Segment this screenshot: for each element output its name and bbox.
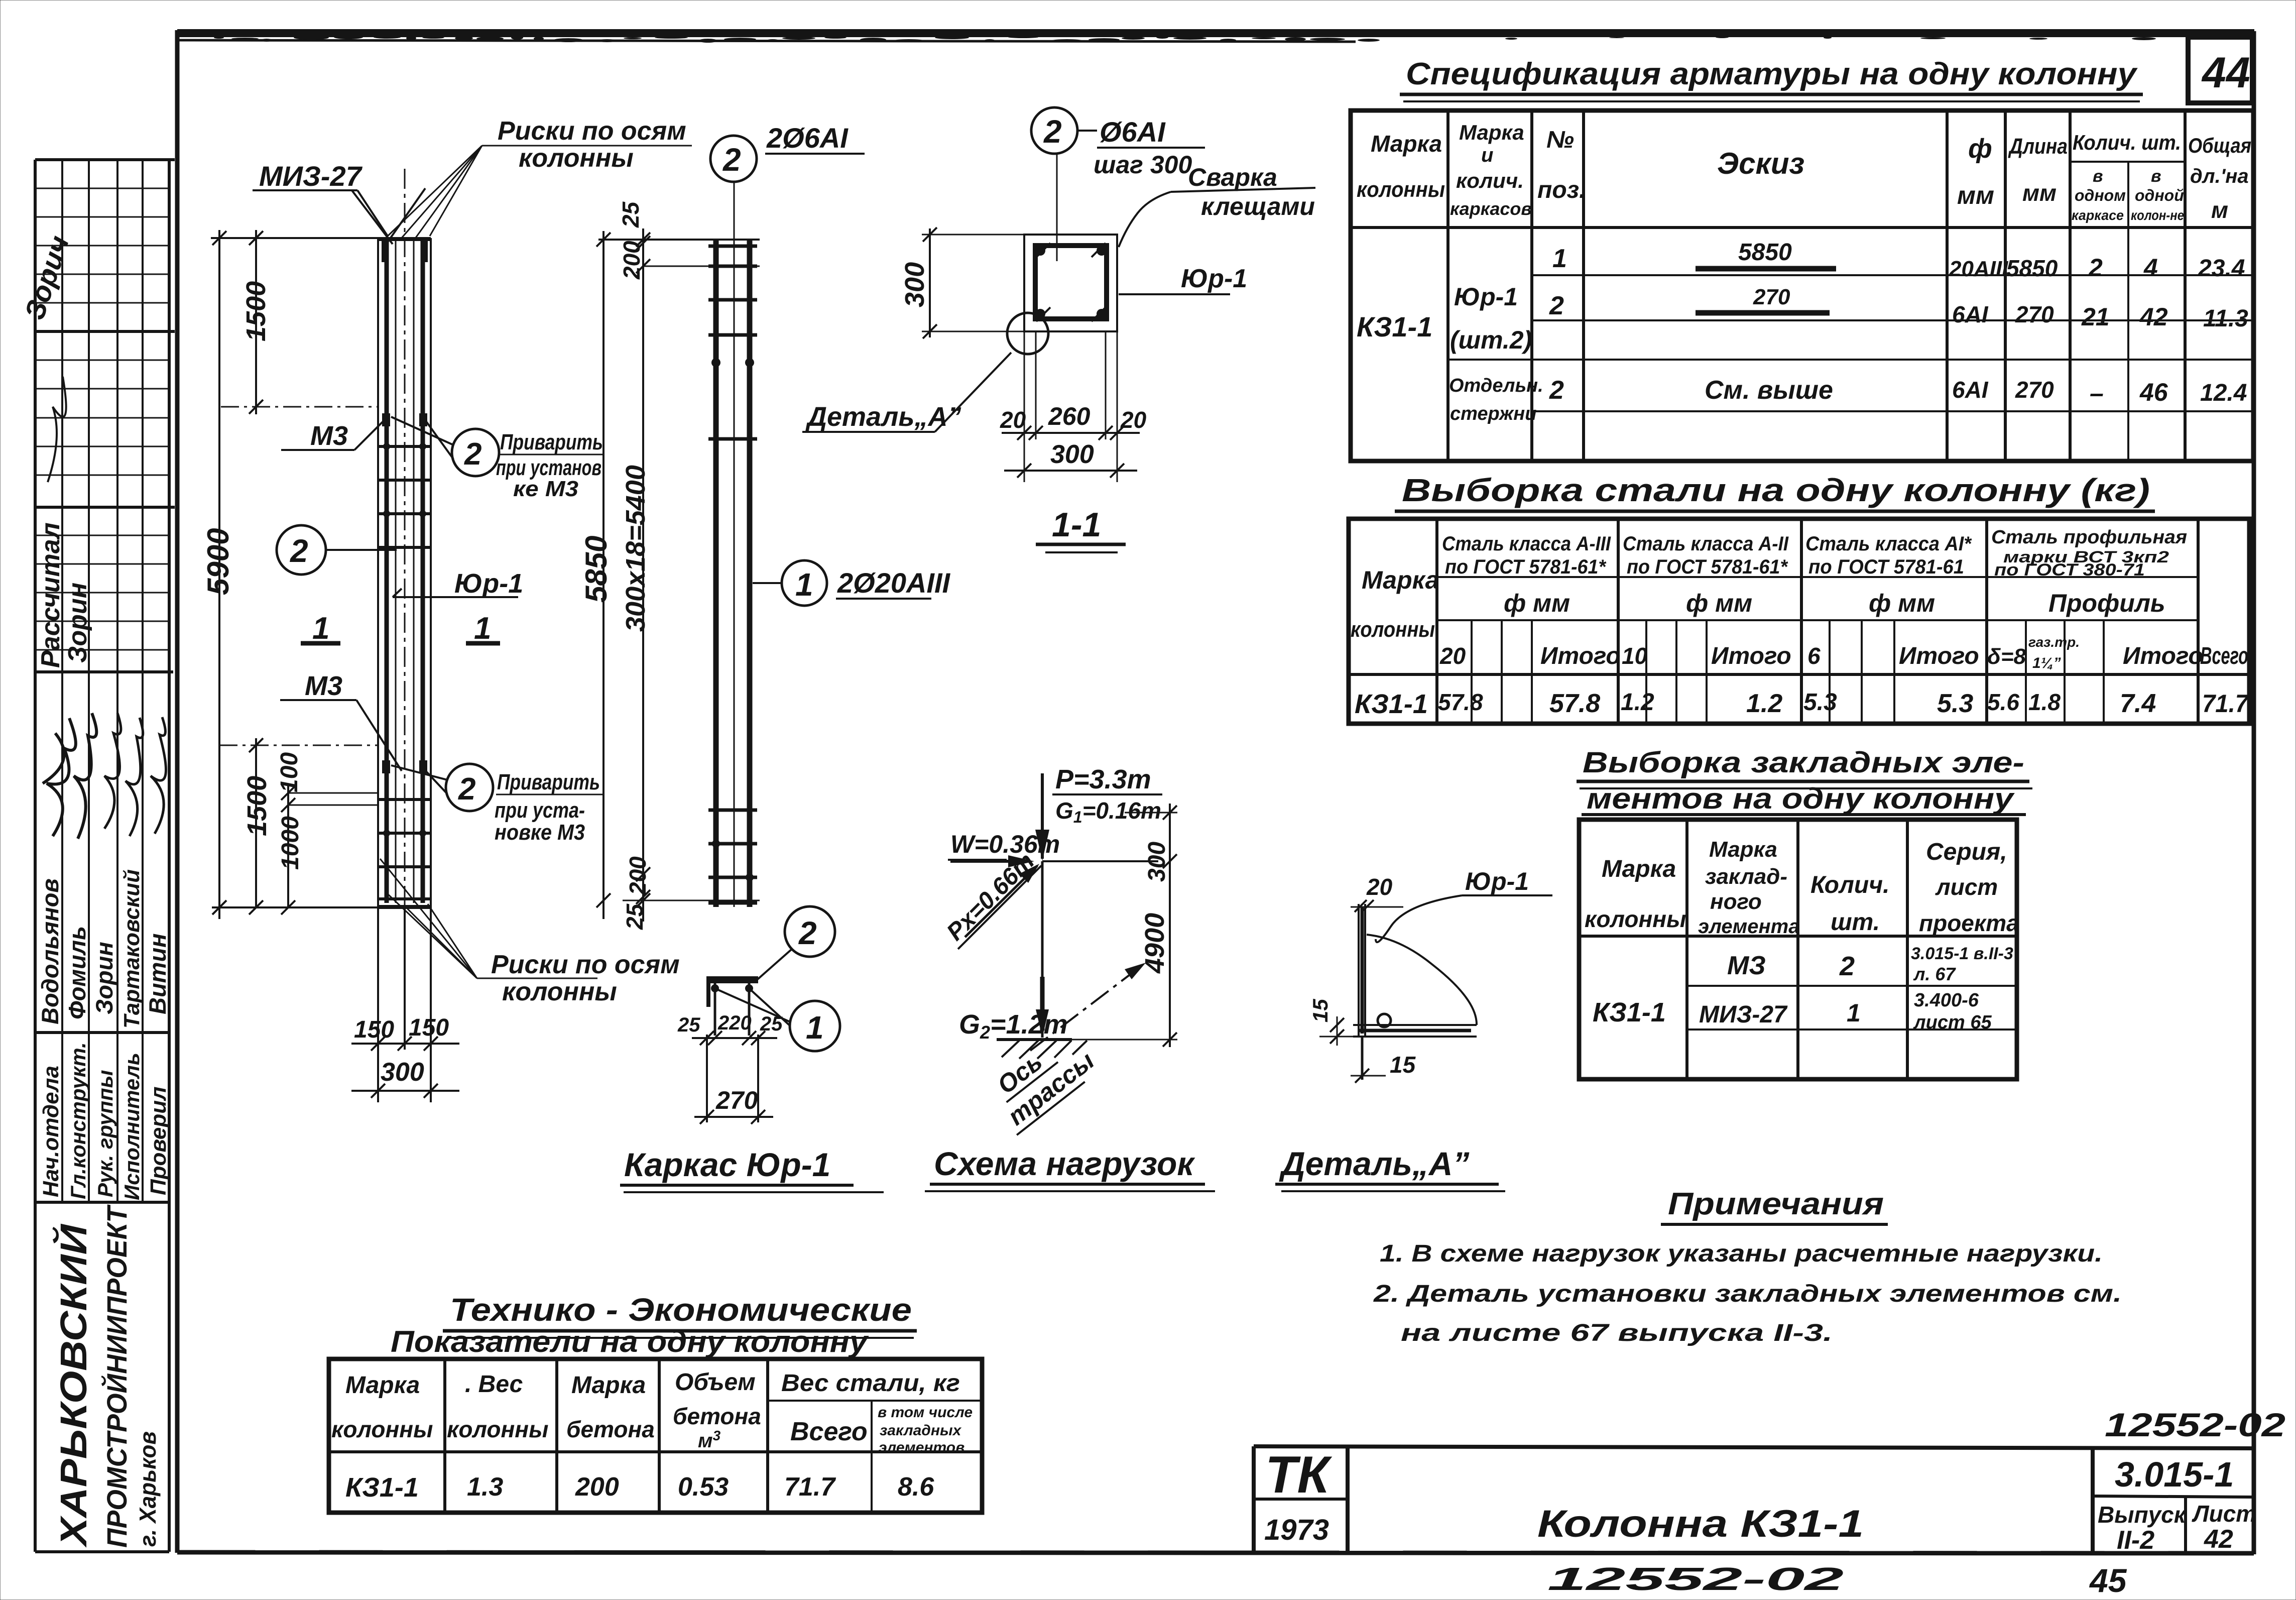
svg-text:3.015-1 в.ІІ-3: 3.015-1 в.ІІ-3	[1911, 944, 2013, 963]
svg-text:закладных: закладных	[880, 1422, 962, 1439]
scan noise along top border	[183, 35, 2156, 43]
dimension 5850 (cage total)	[579, 231, 613, 919]
svg-text:Приварить: Приварить	[500, 430, 603, 454]
stirrups upper cluster	[378, 445, 431, 448]
svg-text:Ø6АІ: Ø6АІ	[1100, 116, 1166, 148]
svg-text:элемента: элемента	[1698, 916, 1799, 938]
svg-text:2: 2	[1043, 113, 1062, 150]
svg-text:2: 2	[722, 142, 741, 178]
svg-text:Зорин: Зорин	[63, 583, 92, 663]
svg-text:1: 1	[806, 1009, 824, 1046]
svg-text:Выпуск: Выпуск	[2098, 1502, 2187, 1528]
column axis	[1041, 861, 1044, 1038]
column K31-1 elevation view	[351, 169, 431, 907]
svg-text:12.4: 12.4	[2200, 380, 2247, 406]
svg-text:G2=1.2т: G2=1.2т	[959, 1009, 1068, 1043]
steel table header texts	[1351, 527, 2248, 671]
callout 1 (stirrup detail)	[717, 989, 840, 1051]
svg-text:ПРОМСТРОЙНИИПРОЕКТ: ПРОМСТРОЙНИИПРОЕКТ	[101, 1204, 133, 1548]
svg-text:5.6: 5.6	[1987, 689, 2019, 715]
svg-text:12552-02: 12552-02	[1547, 1561, 1844, 1597]
svg-text:КЗ1-1: КЗ1-1	[1355, 689, 1428, 719]
svg-text:2: 2	[798, 915, 817, 951]
embed table texts	[1585, 837, 2019, 1033]
axis cross lines at top	[351, 190, 393, 244]
weld dot	[1378, 1014, 1391, 1027]
svg-text:11.3: 11.3	[2203, 305, 2248, 332]
svg-text:2Ø6АІ: 2Ø6АІ	[766, 122, 849, 154]
svg-text:Примечания: Примечания	[1668, 1187, 1884, 1221]
axis of route dash-dot	[1030, 965, 1142, 1051]
corner bars	[1035, 246, 1045, 256]
column axis dash-dot	[404, 169, 406, 907]
svg-text:по ГОСТ 380-71: по ГОСТ 380-71	[1994, 560, 2145, 580]
stirrup bending detail (below cage)	[677, 976, 783, 1124]
svg-text:бетона: бетона	[673, 1403, 761, 1429]
callout 2: Ø6АI шаг 300	[1031, 107, 1205, 261]
svg-text:15: 15	[1308, 999, 1332, 1022]
svg-text:150: 150	[409, 1014, 449, 1041]
svg-text:колонны: колонны	[1351, 617, 1435, 642]
svg-text:Марка: Марка	[1459, 121, 1524, 144]
svg-text:клещами: клещами	[1201, 192, 1315, 220]
svg-text:одном: одном	[2075, 186, 2126, 204]
svg-text:20: 20	[1366, 874, 1393, 900]
svg-text:–: –	[2090, 379, 2104, 407]
svg-text:Марка: Марка	[1709, 837, 1777, 862]
svg-text:W=0.36т: W=0.36т	[950, 830, 1060, 858]
single stirrup	[708, 437, 757, 441]
svg-text:Рассчитал: Рассчитал	[36, 522, 65, 668]
svg-text:г. Харьков: г. Харьков	[135, 1431, 161, 1547]
tech table texts	[331, 1369, 973, 1503]
dimension 1500 / 1000 / 100 (bottom segments)	[212, 738, 382, 915]
svg-text:шаг 300: шаг 300	[1094, 151, 1192, 179]
svg-text:200: 200	[619, 241, 645, 280]
svg-text:См. выше: См. выше	[1705, 376, 1833, 405]
concrete outline	[1024, 235, 1117, 331]
svg-text:ке М3: ке М3	[513, 477, 578, 501]
svg-text:42: 42	[2204, 1525, 2233, 1554]
svg-text:бетона: бетона	[566, 1416, 655, 1442]
reinforcement cage Юр-1 elevation	[598, 182, 760, 907]
svg-text:220: 220	[717, 1012, 752, 1034]
svg-text:Риски по осям: Риски по осям	[498, 117, 686, 146]
svg-text:колич.: колич.	[1456, 169, 1524, 192]
svg-text:57.8: 57.8	[1438, 689, 1483, 715]
title Схема нагрузок	[925, 1145, 1215, 1191]
svg-text:проекта: проекта	[1919, 910, 2019, 936]
longitudinal rebar	[385, 241, 389, 903]
label Юр-1 (section)	[1119, 264, 1247, 294]
sketch row 2: bar 270	[1696, 310, 1830, 316]
dimensions 20 260 20 / 300 (below section)	[1000, 331, 1147, 482]
svg-text:Колонна КЗ1-1: Колонна КЗ1-1	[1537, 1503, 1864, 1545]
svg-text:№: №	[1546, 127, 1574, 153]
force P vertical arrow	[1041, 773, 1044, 859]
svg-text:1: 1	[795, 566, 813, 603]
svg-text:2Ø20АІІІ: 2Ø20АІІІ	[837, 567, 951, 599]
svg-text:каркасе: каркасе	[2072, 207, 2124, 223]
svg-text:новке М3: новке М3	[495, 820, 585, 845]
detail A drawing	[1308, 867, 1552, 1083]
svg-text:Сварка: Сварка	[1188, 163, 1277, 191]
svg-text:колонны: колонны	[519, 144, 634, 173]
svg-text:КЗ1-1: КЗ1-1	[1593, 997, 1666, 1027]
svg-text:25: 25	[618, 201, 644, 228]
M3 embed marks upper	[382, 413, 390, 426]
column outline	[377, 238, 379, 907]
svg-text:2: 2	[290, 533, 308, 569]
svg-text:5.3: 5.3	[1937, 689, 1973, 718]
svg-text:ф: ф	[1968, 134, 1992, 164]
svg-text:Марка: Марка	[1602, 856, 1676, 882]
svg-text:2: 2	[1549, 291, 1564, 320]
svg-text:Марка: Марка	[1362, 566, 1439, 594]
svg-text:Марка: Марка	[1371, 131, 1442, 157]
svg-text:колонны: колонны	[331, 1416, 433, 1442]
svg-text:5850: 5850	[579, 536, 613, 603]
callout 2: Приварить при установке М3 (upper)	[391, 417, 603, 501]
left stamp block (rotated title table)	[35, 160, 175, 1552]
svg-text:ІІ-2: ІІ-2	[2117, 1526, 2154, 1555]
svg-text:1-1: 1-1	[1052, 506, 1101, 544]
vertical dimension 300 / 4900	[1125, 812, 1177, 814]
svg-text:ф мм: ф мм	[1869, 589, 1935, 617]
quarter circle gusset	[1367, 935, 1477, 1025]
svg-text:Фомиль: Фомиль	[64, 926, 90, 1019]
svg-text:2: 2	[458, 772, 475, 807]
bar splice dots	[711, 358, 720, 367]
column top line	[1042, 860, 1158, 862]
callout 2 with 2Ø6АI (top of cage)	[710, 122, 865, 182]
svg-text:Вес стали, кг: Вес стали, кг	[781, 1370, 960, 1397]
svg-text:Технико - Экономические: Технико - Экономические	[450, 1292, 912, 1328]
svg-text:мм: мм	[2022, 180, 2057, 206]
svg-text:2: 2	[464, 437, 481, 472]
svg-text:дл.'на: дл.'на	[2190, 165, 2249, 187]
svg-text:71.7: 71.7	[784, 1472, 836, 1502]
svg-text:300: 300	[381, 1058, 424, 1087]
force G2 arrow	[1040, 977, 1045, 1031]
svg-text:270: 270	[2015, 377, 2054, 403]
svg-text:1: 1	[312, 611, 329, 646]
grid	[1351, 110, 2253, 461]
svg-text:Серия,: Серия,	[1926, 839, 2007, 865]
svg-text:Колич. шт.: Колич. шт.	[2073, 131, 2181, 154]
svg-text:Выборка стали на одну коло: Выборка стали на одну колонну (кг)	[1402, 472, 2150, 508]
svg-text:6: 6	[1807, 643, 1821, 669]
ground line and hatching	[997, 1038, 1072, 1041]
svg-text:300: 300	[1144, 842, 1170, 882]
dimension 300 (left of section)	[900, 227, 1027, 338]
stirrup hooks	[1036, 243, 1050, 257]
load scheme diagram	[939, 764, 1177, 1135]
cage bars	[713, 240, 719, 907]
svg-text:57.8: 57.8	[1549, 689, 1600, 718]
dim 15 left	[1337, 1016, 1338, 1046]
svg-text:Каркас Юр-1: Каркас Юр-1	[624, 1146, 830, 1183]
svg-text:300x18=5400: 300x18=5400	[621, 465, 651, 632]
svg-text:газ.тр.: газ.тр.	[2028, 634, 2080, 650]
dim 20 at top	[1351, 906, 1403, 908]
svg-text:1¼”: 1¼”	[2032, 655, 2061, 671]
svg-text:25: 25	[622, 903, 648, 930]
table: Выборка закладных элементов на одну колонну	[1577, 746, 2032, 1079]
dim 15 bottom	[1361, 1037, 1364, 1080]
svg-text:Итого: Итого	[1540, 643, 1621, 669]
table: Выборка стали на одну колонну (кг)	[1349, 472, 2249, 724]
svg-text:МИЗ-27: МИЗ-27	[1699, 1001, 1788, 1028]
svg-text:и: и	[1481, 144, 1493, 166]
top corner marks	[382, 241, 389, 262]
svg-text:10: 10	[1622, 643, 1648, 669]
svg-text:Итого: Итого	[1899, 643, 1979, 669]
svg-text:Нач.отдела: Нач.отдела	[39, 1066, 63, 1197]
svg-text:Выборка закладных эле-: Выборка закладных эле-	[1583, 746, 2024, 779]
svg-text:3.015-1: 3.015-1	[2115, 1455, 2234, 1494]
Px diagonal	[965, 866, 1037, 937]
svg-text:Юр-1: Юр-1	[1465, 867, 1529, 895]
svg-text:1500: 1500	[242, 776, 272, 836]
svg-text:Зорин: Зорин	[91, 942, 117, 1014]
section 1-1 of column	[1024, 235, 1117, 331]
svg-text:ТК: ТК	[1265, 1446, 1333, 1504]
table: Технико-экономические показатели на одну колонну	[329, 1292, 982, 1513]
horizontal embed plate	[1353, 1024, 1477, 1026]
extension lines top/bottom	[598, 239, 760, 241]
svg-text:стержни: стержни	[1450, 403, 1536, 424]
svg-text:колонны: колонны	[447, 1416, 548, 1442]
svg-text:Объем: Объем	[675, 1369, 756, 1396]
svg-text:Р=3.3т: Р=3.3т	[1055, 764, 1151, 794]
svg-text:колонны: колонны	[1585, 906, 1686, 932]
svg-text:21: 21	[2081, 303, 2110, 331]
label М3 (lower) with leader	[280, 671, 402, 771]
label МИЗ-27 with leader	[253, 160, 388, 236]
svg-text:Лист: Лист	[2192, 1501, 2256, 1527]
svg-text:(шт.2): (шт.2)	[1450, 326, 1532, 354]
svg-text:150: 150	[354, 1016, 394, 1043]
spec table header texts	[1357, 121, 2251, 223]
svg-text:Марка: Марка	[571, 1372, 646, 1399]
title block bottom right	[1254, 1446, 2254, 1553]
label Риски по осям колонны (bottom)	[380, 859, 680, 1006]
svg-text:Проверил: Проверил	[146, 1087, 171, 1195]
svg-text:270: 270	[1753, 285, 1790, 309]
svg-text:Гл.конструкт.: Гл.конструкт.	[66, 1042, 90, 1199]
svg-text:колонны: колонны	[1357, 177, 1445, 202]
svg-text:Риски по осям: Риски по осям	[491, 950, 680, 979]
bottom dimensions 150 150 300	[351, 907, 459, 1102]
svg-text:6АІ: 6АІ	[1952, 377, 1989, 403]
svg-text:поз.: поз.	[1537, 177, 1586, 203]
svg-text:Деталь„А”: Деталь„А”	[805, 402, 961, 432]
svg-text:М3: М3	[310, 421, 348, 451]
svg-text:м: м	[2211, 197, 2228, 223]
svg-text:3.400-6: 3.400-6	[1914, 990, 1979, 1011]
svg-text:20: 20	[1000, 407, 1026, 433]
svg-text:Витин: Витин	[144, 933, 171, 1014]
svg-text:м3: м3	[698, 1428, 721, 1452]
svg-text:4: 4	[2143, 254, 2158, 282]
svg-text:44: 44	[2201, 49, 2250, 97]
svg-text:δ=8: δ=8	[1987, 644, 2026, 669]
label Риски по осям колонны (top)	[387, 117, 692, 239]
svg-text:1973: 1973	[1264, 1514, 1329, 1546]
svg-text:270: 270	[2015, 301, 2054, 327]
spec table data	[1357, 239, 2248, 424]
svg-text:М3: М3	[305, 671, 342, 701]
svg-text:1500: 1500	[241, 281, 271, 341]
dimension 5900 (left of column)	[201, 230, 382, 919]
svg-text:Профиль: Профиль	[2048, 589, 2165, 617]
svg-text:5850: 5850	[1738, 239, 1792, 266]
svg-text:1: 1	[1847, 999, 1861, 1027]
svg-text:20: 20	[1120, 407, 1147, 433]
svg-text:Юр-1: Юр-1	[1181, 264, 1247, 293]
svg-text:ного: ного	[1710, 889, 1762, 914]
svg-text:2: 2	[2088, 254, 2103, 282]
svg-text:Сталь профильная: Сталь профильная	[1991, 527, 2187, 548]
svg-text:1: 1	[474, 611, 491, 646]
svg-text:КЗ1-1: КЗ1-1	[345, 1472, 419, 1503]
stamp signatures row	[43, 718, 76, 836]
svg-text:2: 2	[1839, 951, 1855, 981]
svg-text:лист 65: лист 65	[1913, 1012, 1992, 1033]
callout 2 (stirrup detail)	[758, 906, 835, 979]
svg-text:элементов: элементов	[879, 1439, 964, 1456]
M3 embed marks lower	[382, 760, 390, 773]
dim 270	[706, 1035, 708, 1122]
svg-text:1. В схеме нагрузок указаны: 1. В схеме нагрузок указаны расчетные на…	[1380, 1240, 2103, 1267]
svg-text:одной: одной	[2135, 186, 2184, 204]
sheet number 44 box top right	[2188, 37, 2252, 103]
svg-text:ХАРЬКОВСКИЙ: ХАРЬКОВСКИЙ	[52, 1223, 94, 1548]
svg-text:46: 46	[2139, 378, 2168, 406]
svg-text:. Вес: . Вес	[465, 1371, 523, 1398]
svg-text:300: 300	[1050, 440, 1094, 469]
svg-text:по ГОСТ 5781-61*: по ГОСТ 5781-61*	[1627, 556, 1788, 578]
svg-text:Сталь класса А-ІІ: Сталь класса А-ІІ	[1623, 533, 1789, 555]
svg-text:20: 20	[1439, 643, 1466, 669]
svg-text:ф мм: ф мм	[1686, 589, 1752, 617]
svg-text:1: 1	[1552, 244, 1567, 273]
callout 1 with 2Ø20АIII	[753, 560, 951, 606]
svg-text:Сталь класса А-ІІІ: Сталь класса А-ІІІ	[1442, 533, 1611, 555]
svg-text:1.2: 1.2	[1746, 689, 1782, 718]
svg-text:200: 200	[575, 1472, 619, 1502]
svg-text:Всего: Всего	[2200, 643, 2248, 669]
svg-text:2: 2	[1549, 376, 1564, 405]
svg-text:Итого: Итого	[1711, 643, 1791, 669]
svg-text:Сталь класса АІ*: Сталь класса АІ*	[1805, 533, 1972, 555]
svg-text:в: в	[2093, 167, 2103, 186]
svg-text:МИЗ-27: МИЗ-27	[259, 160, 363, 192]
svg-text:6АІ: 6АІ	[1952, 301, 1989, 327]
svg-text:1.3: 1.3	[467, 1472, 503, 1502]
svg-text:КЗ1-1: КЗ1-1	[1357, 311, 1432, 342]
svg-text:Отдельн.: Отдельн.	[1449, 375, 1543, 396]
svg-text:20АІІІ: 20АІІІ	[1949, 257, 2008, 281]
svg-text:Спецификация арматуры на од: Спецификация арматуры на одну колонну	[1406, 57, 2138, 91]
svg-text:л. 67: л. 67	[1913, 964, 1956, 984]
svg-text:Рук. группы: Рук. группы	[93, 1070, 117, 1197]
svg-text:Схема нагрузок: Схема нагрузок	[934, 1145, 1195, 1182]
svg-text:2. Деталь установки закладны: 2. Деталь установки закладных элементов …	[1373, 1281, 2122, 1307]
svg-text:каркасов: каркасов	[1450, 198, 1532, 219]
svg-text:Марка: Марка	[345, 1372, 420, 1399]
svg-text:при уста-: при уста-	[495, 798, 585, 823]
svg-text:5900: 5900	[201, 528, 235, 595]
svg-text:шт.: шт.	[1831, 909, 1880, 936]
svg-text:71.7: 71.7	[2202, 690, 2249, 718]
svg-text:МЗ: МЗ	[1727, 951, 1766, 980]
label Сварка клещами	[1119, 163, 1315, 247]
svg-text:в: в	[2151, 167, 2161, 186]
svg-text:12552-02: 12552-02	[2105, 1406, 2285, 1443]
svg-text:Юр-1: Юр-1	[1454, 283, 1518, 311]
section cut marks 1 ... 1	[301, 611, 500, 646]
svg-text:Юр-1: Юр-1	[454, 568, 523, 599]
svg-text:Колич.: Колич.	[1810, 872, 1890, 898]
svg-text:260: 260	[1048, 402, 1091, 430]
callout 2: Приварить при установке М3 (lower)	[391, 764, 602, 845]
dimension 1500 (top segment)	[221, 230, 378, 414]
svg-text:Итого: Итого	[2123, 643, 2203, 669]
svg-text:Зорич: Зорич	[18, 232, 75, 323]
svg-text:Всего: Всего	[790, 1417, 868, 1446]
svg-text:Исполнитель: Исполнитель	[120, 1053, 144, 1200]
svg-text:Общая: Общая	[2188, 134, 2251, 157]
stirrups lower cluster	[378, 798, 431, 801]
svg-text:Эскиз: Эскиз	[1717, 147, 1804, 180]
svg-text:Тартаковский: Тартаковский	[119, 869, 144, 1028]
title Деталь А	[1275, 1145, 1505, 1191]
svg-text:по ГОСТ 5781-61*: по ГОСТ 5781-61*	[1445, 556, 1607, 578]
vertical embed plate	[1358, 904, 1360, 1037]
svg-text:по ГОСТ 5781-61: по ГОСТ 5781-61	[1808, 556, 1964, 578]
sketch row 1: bar 5850	[1696, 266, 1836, 272]
svg-text:200: 200	[625, 856, 651, 895]
callout 2 (middle left)	[277, 525, 397, 575]
svg-text:Длина: Длина	[2008, 134, 2068, 159]
notes Примечания	[1373, 1187, 2122, 1346]
dimension chain 25 200 300x18=5400 200 25	[618, 201, 651, 930]
svg-text:100: 100	[276, 752, 303, 792]
svg-text:колонны: колонны	[502, 977, 617, 1006]
stirrups bottom cluster	[708, 809, 757, 812]
dim 25 220 25	[692, 1037, 777, 1039]
svg-text:5850: 5850	[2006, 255, 2058, 281]
svg-text:0.53: 0.53	[678, 1472, 729, 1502]
svg-text:23.4: 23.4	[2198, 255, 2245, 282]
table: Спецификация арматуры на одну колонну	[1351, 57, 2253, 461]
svg-text:42: 42	[2139, 303, 2168, 331]
title Каркас Юр-1	[620, 1146, 884, 1192]
svg-text:в том числе: в том числе	[878, 1404, 973, 1421]
svg-text:15: 15	[1390, 1052, 1416, 1078]
svg-text:Водольянов: Водольянов	[37, 878, 63, 1024]
svg-text:на листе 67 выпуска ІІ-3.: на листе 67 выпуска ІІ-3.	[1401, 1320, 1833, 1346]
svg-text:Показатели на одну колонну: Показатели на одну колонну	[391, 1325, 869, 1358]
svg-text:1.8: 1.8	[2028, 689, 2061, 715]
svg-text:7.4: 7.4	[2120, 689, 2156, 718]
svg-text:ф мм: ф мм	[1504, 589, 1570, 617]
svg-text:45: 45	[2089, 1562, 2127, 1599]
steel table data row	[1355, 689, 2249, 719]
svg-text:Приварить: Приварить	[497, 770, 600, 794]
